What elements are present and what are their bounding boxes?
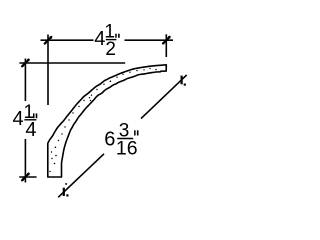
svg-text:4: 4 — [25, 119, 36, 141]
svg-text:2: 2 — [105, 39, 116, 60]
left dimension value label 4 1/4 inch — [13, 102, 38, 141]
diagonal dimension upper tick mark — [182, 76, 186, 86]
left dimension bottom tick mark — [22, 173, 30, 181]
left dimension bottom extension line — [19, 176, 36, 178]
svg-text:4: 4 — [13, 108, 24, 130]
diagonal dimension value label 6 3/16 inch — [104, 120, 138, 159]
svg-text:6: 6 — [104, 128, 115, 150]
top dimension left extension line — [47, 35, 49, 106]
svg-text:16: 16 — [116, 137, 138, 159]
diagonal dimension line (face 6 3/16 inch) — [58, 75, 187, 197]
top dimension right extension line — [165, 34, 167, 57]
cove moulding profile cross-section outline — [48, 65, 167, 177]
left dimension top tick mark — [22, 59, 30, 67]
top dimension left tick mark — [44, 36, 52, 44]
left dimension line (height 4 1/4 inch) — [24, 59, 26, 183]
top dimension line (width 4 1/2 inch) — [41, 39, 174, 41]
wood stipple texture dots inside profile band — [49, 68, 156, 172]
top dimension value label 4 1/2 inch — [94, 22, 120, 60]
top dimension right tick mark — [162, 36, 170, 44]
left dimension top extension line — [19, 62, 125, 64]
diagonal dimension lower tick mark — [64, 183, 69, 196]
